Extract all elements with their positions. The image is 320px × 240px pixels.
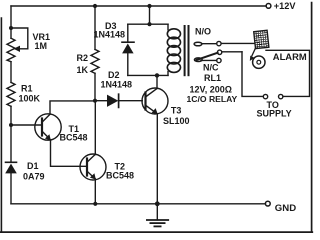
diode D1 [6,161,17,163]
node R1/T1 [9,123,13,127]
transistor T3 SL100 [142,88,168,114]
wire T2 collector [94,101,96,155]
svg-text:0A79: 0A79 [23,171,45,181]
svg-text:12V, 200Ω: 12V, 200Ω [190,84,232,94]
wire left rail lower [10,173,12,203]
svg-text:T3: T3 [171,106,182,116]
node VR1 top [9,26,13,30]
alarm striker arrow [252,48,256,56]
wire R2 bottom to node [94,73,96,100]
relay core [184,26,186,75]
node T3 emitter / ground [155,201,160,206]
wire left rail between VR1 and R1 [10,62,12,83]
relay RL1 coil [167,24,169,30]
transistor T2 BC548 [80,154,106,180]
frame bottom border [1,231,313,233]
svg-text:BC548: BC548 [60,133,88,143]
wire T1 emitter to T2 base [51,140,87,167]
wire left rail upper [10,6,12,38]
terminal to-supply left [263,94,267,98]
terminal +12V [266,4,271,9]
svg-text:1K: 1K [77,65,89,75]
wire alarm loop right [266,50,310,96]
wire relay drop from top rail [149,6,151,24]
node T1/T2 collectors junction [93,99,97,103]
svg-text:R1: R1 [21,83,33,93]
svg-text:+12V: +12V [274,1,297,11]
wire T3 collector [156,75,158,88]
node T3 collector / relay coil [155,73,159,77]
relay N/C contact [201,59,217,61]
frame right border [311,3,313,232]
svg-text:N/C: N/C [203,63,219,73]
resistor R1 [7,82,15,106]
wire VR1 wiper loop [11,28,28,49]
svg-text:RL1: RL1 [204,73,221,83]
svg-text:BC548: BC548 [106,171,134,181]
svg-text:100K: 100K [19,94,41,104]
wire bottom rail [11,203,265,205]
svg-text:SL100: SL100 [163,116,190,126]
frame left border [0,18,2,232]
svg-text:1C/O RELAY: 1C/O RELAY [187,94,238,104]
wire top rail [11,5,266,7]
wire relay bottom branch [128,74,168,76]
svg-text:1M: 1M [35,41,48,51]
node top rail / R2 [93,4,97,8]
wire alarm loop left [242,52,263,97]
svg-text:SUPPLY: SUPPLY [257,109,292,119]
potentiometer VR1 [7,38,15,62]
VR1 wiper arrowhead [14,46,21,52]
terminal GND [265,201,270,206]
wire T2 emitter to bottom rail [94,179,96,204]
alarm gong [253,56,265,68]
diode D2 [95,100,107,102]
node T2 emitter / bottom rail [93,202,97,206]
relay pole arm [194,58,202,62]
svg-text:R2: R2 [77,53,89,63]
node top rail / relay [147,4,151,8]
transistor T1 BC548 [35,114,61,140]
diode D3 [127,24,129,42]
wire D2 cathode to T3 base [119,100,143,102]
svg-text:N/O: N/O [195,27,211,37]
svg-text:1N4148: 1N4148 [101,80,133,90]
wire T1 base from R1 node [11,124,42,126]
wire T1 collector [50,101,95,114]
wire relay top branch [128,23,168,25]
wire pole to supply [222,51,242,53]
alarm coil (hatched box) [254,30,269,48]
svg-text:D1: D1 [27,161,39,171]
terminal to-supply right [279,94,283,98]
svg-text:ALARM: ALARM [273,51,307,62]
relay N/O contact [194,42,202,46]
node relay branch [147,22,151,26]
resistor R2 [91,49,99,73]
svg-text:GND: GND [275,203,296,214]
wire N/O to alarm coil [221,42,254,44]
svg-text:1N4148: 1N4148 [94,29,126,39]
wire middle column upper [94,6,96,49]
ground [156,204,158,220]
wire left rail between R1 and D1 [10,106,12,162]
svg-text:D2: D2 [108,70,120,80]
wire T3 emitter to bottom rail [156,114,158,204]
